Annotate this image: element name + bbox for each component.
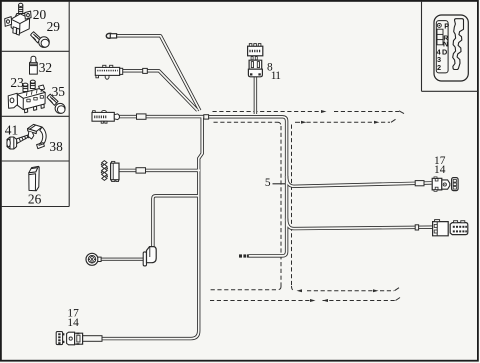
- svg-text:23: 23: [10, 75, 24, 90]
- svg-text:38: 38: [49, 139, 63, 154]
- dashed continuation line top row 2: [214, 121, 278, 123]
- svg-text:20: 20: [33, 7, 47, 22]
- parts column grid: [1, 1, 69, 207]
- wire to connector 2: [122, 71, 198, 111]
- wire to connector 3: [119, 115, 206, 118]
- frayed stub end: [239, 254, 249, 257]
- part 20: switch: [5, 3, 31, 35]
- selector panel outline: [434, 15, 468, 81]
- svg-text:11: 11: [271, 70, 281, 82]
- dashed continuation line top row 1: [213, 111, 321, 113]
- svg-text:32: 32: [39, 60, 52, 75]
- svg-text:41: 41: [5, 122, 18, 137]
- connector 4 branch: [119, 169, 200, 172]
- sleeve on right wire1: [415, 181, 424, 186]
- part 29: screw: [31, 32, 50, 48]
- svg-text:P: P: [444, 22, 449, 31]
- svg-text:14: 14: [434, 164, 446, 176]
- P button circle: [437, 23, 441, 27]
- part 38: bracket clip: [28, 124, 47, 148]
- part 26: clip: [29, 166, 39, 190]
- dashed vertical line left: [280, 126, 282, 287]
- main left trunk down to bottom wire: [102, 117, 203, 339]
- gear step boxes: [437, 29, 443, 45]
- svg-text:26: 26: [28, 192, 42, 207]
- shift gate inset box: [422, 1, 479, 91]
- svg-text:35: 35: [52, 84, 66, 99]
- svg-text:D: D: [442, 48, 447, 57]
- svg-text:29: 29: [47, 19, 61, 34]
- sleeve on connector2 wire: [143, 68, 148, 73]
- part 41: screw: [7, 134, 30, 149]
- dashed vertical line right: [291, 125, 293, 287]
- sleeve on trunk near junction: [204, 115, 209, 119]
- label 5 leader: [273, 183, 286, 185]
- right wire 2: [287, 219, 432, 229]
- part 35: screw: [47, 94, 65, 113]
- dashed bottom row 1: [210, 287, 281, 290]
- svg-text:14: 14: [67, 317, 79, 329]
- part 32: rubber cap: [30, 56, 38, 74]
- wire to ring terminal: [116, 36, 200, 111]
- 8/11 connector wire: [254, 76, 257, 114]
- connector 5 branch: [153, 196, 198, 247]
- part 23: switch assembly: [8, 80, 45, 113]
- sleeve on connector4 wire: [136, 168, 146, 173]
- gear position display: [436, 21, 448, 73]
- shift gate path: [453, 19, 464, 70]
- right wire 1: [287, 176, 432, 186]
- svg-text:2: 2: [437, 63, 441, 72]
- sleeve on connector3 wire: [137, 114, 147, 119]
- dashed bottom row 2: [210, 300, 310, 302]
- svg-text:5: 5: [265, 177, 271, 189]
- sleeve on right wire2: [415, 225, 418, 230]
- sleeve on bottom wire: [82, 336, 103, 342]
- trunk horizontal + right trunk down + stub: [203, 117, 287, 256]
